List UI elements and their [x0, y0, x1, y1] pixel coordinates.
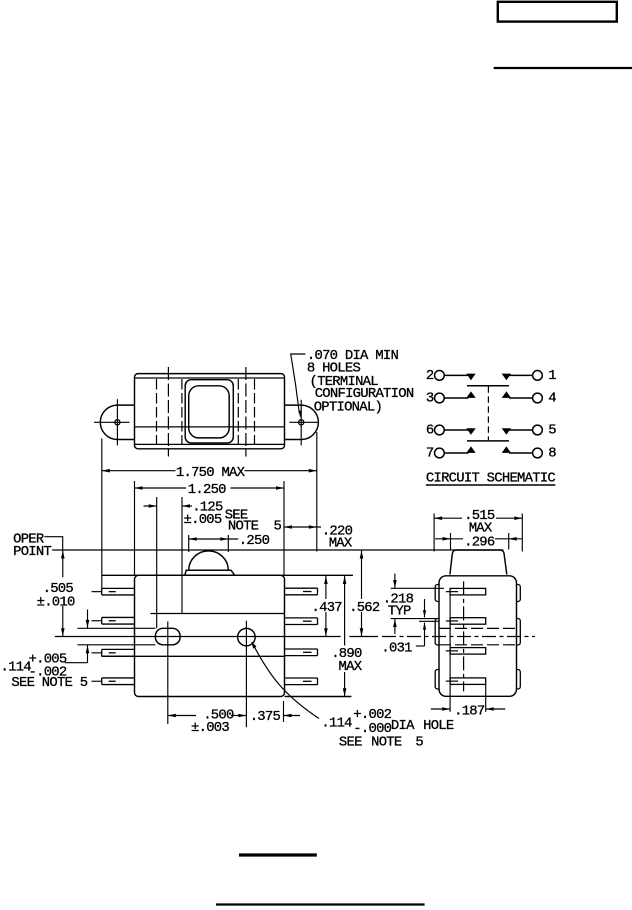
svg-text:.187: .187 — [454, 703, 485, 719]
svg-text:5: 5 — [415, 735, 423, 751]
svg-text:8: 8 — [548, 446, 556, 462]
svg-text:6: 6 — [426, 423, 434, 439]
svg-text:3: 3 — [426, 391, 434, 407]
svg-text:CIRCUIT SCHEMATIC: CIRCUIT SCHEMATIC — [426, 470, 556, 486]
svg-text:2: 2 — [426, 368, 434, 384]
svg-text:7: 7 — [426, 446, 434, 462]
svg-text:.296: .296 — [464, 534, 495, 550]
svg-text:.114: .114 — [321, 716, 352, 732]
svg-text:SEE: SEE — [339, 735, 362, 751]
svg-text:.114: .114 — [1, 660, 32, 676]
svg-text:DIA: DIA — [391, 718, 415, 734]
svg-text:.031: .031 — [381, 640, 412, 656]
svg-text:TYP: TYP — [388, 604, 411, 620]
svg-text:1: 1 — [548, 368, 556, 384]
svg-text:NOTE: NOTE — [371, 735, 402, 751]
svg-text:4: 4 — [548, 391, 556, 407]
svg-text:SEE NOTE 5: SEE NOTE 5 — [11, 675, 87, 691]
svg-text:MAX: MAX — [329, 535, 353, 551]
svg-text:.562: .562 — [349, 600, 380, 616]
svg-text:POINT: POINT — [13, 544, 51, 560]
svg-text:±.003: ±.003 — [191, 720, 229, 736]
svg-text:HOLE: HOLE — [423, 718, 454, 734]
svg-text:1.250: 1.250 — [188, 482, 226, 498]
svg-text:MAX: MAX — [339, 659, 363, 675]
svg-text:.375: .375 — [250, 709, 281, 725]
svg-text:OPTIONAL): OPTIONAL) — [314, 400, 382, 416]
svg-text:NOTE 5: NOTE 5 — [228, 518, 282, 534]
svg-text:5: 5 — [548, 423, 556, 439]
svg-text:1.750 MAX: 1.750 MAX — [176, 465, 246, 481]
svg-text:.250: .250 — [239, 533, 270, 549]
svg-text:.437: .437 — [312, 600, 343, 616]
svg-text:±.005: ±.005 — [184, 512, 222, 528]
svg-text:±.010: ±.010 — [37, 594, 75, 610]
